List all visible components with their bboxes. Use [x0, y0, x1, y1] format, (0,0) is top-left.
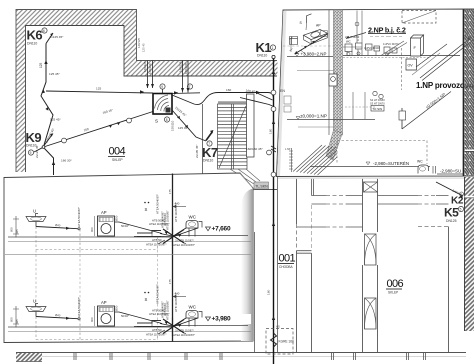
separator line between details — [5, 253, 251, 255]
svg-text:2x HT DN50: 2x HT DN50 — [345, 35, 360, 39]
svg-text:4xPVC DN40: 4xPVC DN40 — [364, 46, 380, 50]
room right wall — [448, 227, 450, 353]
svg-text:±0,000=1.NP: ±0,000=1.NP — [300, 114, 327, 119]
scan shadow below panel bottom — [278, 177, 464, 179]
svg-text:+3,980=2.NP: +3,980=2.NP — [301, 51, 327, 56]
pipe from AP — [115, 222, 163, 234]
wall inner face lines — [26, 26, 278, 173]
svg-text:7: 7 — [208, 142, 210, 146]
corridor main pipe K1 down — [273, 59, 275, 364]
svg-text:S3 HT DN70: S3 HT DN70 — [370, 102, 385, 106]
svg-text:600: 600 — [90, 227, 94, 232]
svg-text:U: U — [33, 209, 36, 214]
room top wall double line — [312, 178, 314, 196]
washing machine axon — [304, 30, 328, 40]
panel chevron hatch — [465, 9, 474, 176]
svg-text:150/110: 150/110 — [171, 120, 175, 131]
svg-text:HTEA 50/40/87°: HTEA 50/40/87° — [156, 194, 160, 214]
pipe K6 riser — [41, 44, 53, 146]
wall outer face lines — [16, 10, 277, 173]
diagonal joining pipe — [240, 98, 273, 107]
svg-text:600: 600 — [10, 227, 14, 232]
dashed ref line — [283, 45, 333, 47]
svg-text:1xPVC DN70: 1xPVC DN70 — [383, 42, 399, 46]
svg-text:004: 004 — [109, 146, 126, 158]
svg-text:Ø40: Ø40 — [55, 223, 61, 227]
K7 riser line down — [202, 104, 204, 176]
svg-text:+3,980: +3,980 — [212, 316, 231, 323]
rotated level label — [402, 92, 451, 130]
svg-text:S: S — [145, 207, 148, 212]
pipe K6 arrow — [46, 33, 53, 44]
curved wall at stair bottom — [244, 190, 277, 256]
svg-text:-2,980=SUTERÉN: -2,980=SUTERÉN — [373, 161, 409, 166]
svg-text:S2 HT DN50: S2 HT DN50 — [370, 98, 385, 102]
panel white sheet — [277, 9, 474, 177]
K9 junction node — [42, 146, 45, 149]
svg-text:SKLEP: SKLEP — [112, 158, 123, 162]
svg-text:125 45: 125 45 — [142, 43, 146, 52]
svg-text:DN110: DN110 — [257, 54, 267, 58]
svg-text:9: 9 — [161, 85, 163, 89]
pipe from U — [36, 227, 78, 229]
box OV — [406, 59, 417, 70]
staircase plan — [218, 104, 248, 169]
dashed box top — [402, 11, 436, 24]
level line under — [297, 70, 334, 72]
room wall vertical x296 — [296, 178, 298, 353]
svg-text:006: 006 — [387, 278, 404, 290]
dim lines left — [13, 216, 19, 238]
440 dim — [173, 206, 187, 208]
svg-text:166 30°: 166 30° — [61, 159, 72, 163]
svg-text:125: 125 — [96, 87, 101, 91]
sink axon — [290, 37, 298, 45]
floor lines — [8, 236, 173, 238]
svg-text:2x125 45°: 2x125 45° — [50, 35, 65, 39]
long pipe along wall to S — [46, 91, 153, 93]
svg-text:2.NP b.j. č.2: 2.NP b.j. č.2 — [368, 25, 406, 34]
long diagonal pipes — [420, 38, 473, 81]
K9 long diagonal pipe to S — [45, 112, 153, 147]
svg-text:160: 160 — [267, 290, 271, 295]
svg-text:AS: AS — [276, 325, 280, 329]
stair side wall bar — [247, 94, 255, 157]
svg-text:125 45°: 125 45° — [178, 126, 189, 130]
stair handrail gray — [218, 101, 246, 103]
svg-text:CHODBA: CHODBA — [279, 265, 294, 269]
svg-text:AP: AP — [101, 210, 107, 215]
svg-text:K5: K5 — [444, 206, 459, 220]
corridor left wall — [254, 232, 256, 353]
svg-text:8: 8 — [166, 118, 168, 122]
level mark — [206, 227, 211, 231]
svg-text:140/125: 140/125 — [137, 37, 141, 48]
wall hatch top band — [16, 10, 137, 26]
svg-text:160: 160 — [226, 88, 231, 92]
svg-text:1.NP: 1.NP — [285, 148, 291, 151]
svg-text:DN110: DN110 — [27, 42, 37, 46]
bottom wall hatch block — [16, 353, 42, 362]
diagonal pipe 2NP — [295, 34, 328, 54]
svg-text:2x105 45°: 2x105 45° — [195, 144, 199, 158]
wall hatch left band — [16, 26, 26, 173]
svg-text:EN: EN — [280, 89, 285, 93]
inter-floor dashed risers — [36, 250, 158, 326]
stair leader lines to label — [230, 169, 260, 184]
svg-text:S: S — [155, 119, 158, 124]
dashed under-floor run — [36, 249, 158, 251]
svg-text:DN110: DN110 — [203, 159, 213, 163]
svg-text:HTB 110/50/87°: HTB 110/50/87° — [174, 202, 178, 222]
svg-text:9: 9 — [30, 151, 32, 155]
junction cluster — [134, 234, 173, 237]
section divider wall line — [172, 174, 174, 342]
panel white sheet — [4, 173, 253, 343]
risers through lower wall band above S — [148, 61, 189, 93]
svg-text:+7,660: +7,660 — [212, 226, 231, 233]
svg-text:HTEA 110/50/87°: HTEA 110/50/87° — [146, 243, 167, 247]
tall box F — [411, 35, 424, 56]
svg-text:OV: OV — [408, 64, 414, 68]
svg-text:175: 175 — [168, 189, 172, 194]
1NP small fixtures — [373, 91, 377, 95]
node circle 6 — [42, 28, 47, 33]
svg-text:160/160: 160/160 — [184, 63, 188, 74]
door X symbol 2 — [365, 298, 377, 329]
svg-text:445: 445 — [15, 229, 19, 234]
svg-text:001: 001 — [279, 253, 296, 265]
svg-text:50/40°: 50/40° — [121, 224, 129, 228]
cleanout dashed box — [266, 329, 293, 355]
K9 pipe down to panel — [45, 149, 54, 176]
wall hatch lower band — [137, 61, 278, 77]
dashed run bottom — [337, 140, 427, 142]
node circle 9 — [28, 150, 33, 155]
pipe from S to corridor — [172, 93, 274, 105]
svg-text:Ø50: Ø50 — [115, 215, 119, 221]
svg-text:-2,980=SU: -2,980=SU — [440, 169, 461, 174]
svg-text:160/160 45°: 160/160 45° — [246, 147, 263, 151]
K7 thick arrow — [206, 132, 213, 141]
corridor right wall — [277, 177, 279, 353]
wall band with door x362-378 — [363, 178, 378, 233]
bottom wall line of plan — [16, 352, 466, 354]
svg-text:5: 5 — [460, 208, 462, 212]
stair section bottom-left — [289, 145, 337, 175]
svg-text:WC: WC — [189, 215, 197, 220]
svg-text:160: 160 — [269, 129, 273, 134]
column fixture mid — [329, 74, 337, 86]
svg-text:WC: WC — [346, 40, 351, 44]
svg-text:K6: K6 — [27, 28, 43, 43]
svg-text:HTEA 110/100/87°: HTEA 110/100/87° — [173, 243, 195, 247]
door X symbol — [365, 234, 377, 265]
svg-text:1: 1 — [272, 46, 274, 50]
label TL.SKN — [254, 182, 269, 189]
svg-text:HTB 50/...: HTB 50/... — [152, 238, 164, 242]
wall line left of column — [328, 10, 330, 135]
right edge plan hatch — [465, 177, 474, 331]
svg-text:TL.SKN: TL.SKN — [255, 184, 268, 188]
svg-text:160/125: 160/125 — [179, 61, 183, 72]
window X symbol top — [364, 182, 378, 192]
svg-text:TO SIN: TO SIN — [372, 107, 382, 111]
svg-text:AP: AP — [316, 24, 321, 28]
wall hatch step block — [124, 26, 137, 77]
K9 arrow up — [44, 134, 53, 146]
svg-text:125 45°: 125 45° — [50, 118, 61, 122]
svg-text:DN125: DN125 — [446, 219, 457, 223]
svg-text:160/125: 160/125 — [143, 61, 147, 72]
svg-text:SKLEP: SKLEP — [388, 291, 398, 295]
svg-text:HTEA 110/50/87: HTEA 110/50/87 — [166, 210, 170, 230]
stippled wall column — [334, 10, 343, 135]
svg-text:6: 6 — [43, 29, 45, 33]
panel right wall line — [463, 10, 465, 177]
sump S square — [153, 94, 172, 115]
dashed drop from U — [35, 227, 37, 250]
svg-text:2x HTB 110/87°: 2x HTB 110/87° — [175, 239, 194, 243]
svg-text:2x125 45°: 2x125 45° — [35, 144, 39, 158]
svg-text:125 45°: 125 45° — [49, 72, 60, 76]
svg-text:HTEA 50/40/87°: HTEA 50/40/87° — [77, 207, 81, 227]
page curl shading right edge — [241, 189, 253, 342]
svg-text:WC: WC — [417, 160, 423, 164]
svg-text:125: 125 — [39, 62, 43, 68]
scan shadow along panel left — [277, 11, 287, 176]
svg-text:160/160: 160/160 — [148, 63, 152, 74]
svg-text:KGRE 160: KGRE 160 — [279, 340, 294, 344]
pipes S down-right to K7 — [172, 110, 206, 141]
bottom wall ticks — [74, 353, 426, 360]
